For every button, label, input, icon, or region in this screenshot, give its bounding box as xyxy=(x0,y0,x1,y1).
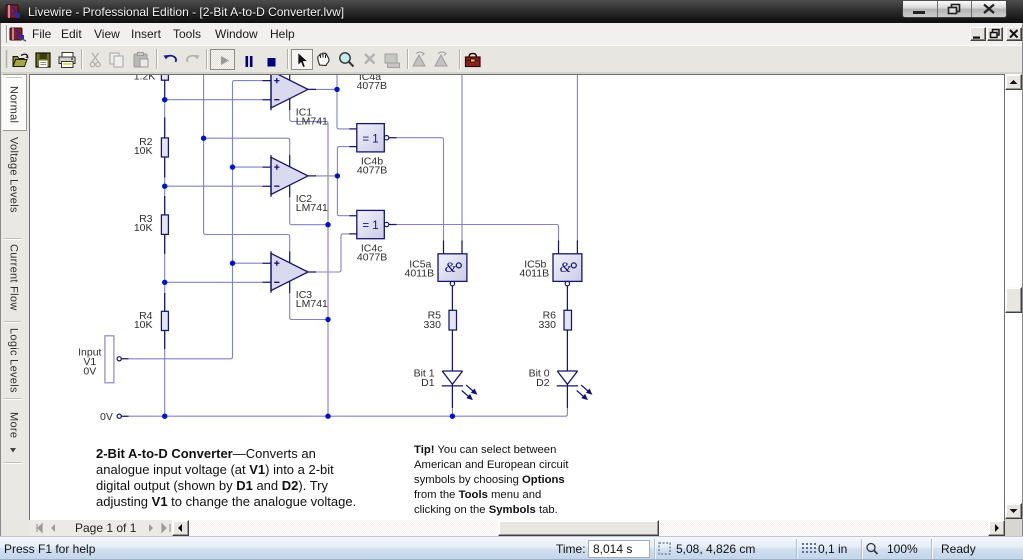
svg-text:D2: D2 xyxy=(536,377,550,389)
svg-text:&: & xyxy=(559,260,571,276)
svg-text:1.2K: 1.2K xyxy=(134,75,156,83)
svg-text:= 1: = 1 xyxy=(362,133,378,145)
svg-text:= 1: = 1 xyxy=(362,220,378,232)
svg-text:D1: D1 xyxy=(421,377,435,389)
svg-text:LM741: LM741 xyxy=(296,116,328,128)
svg-text:4077B: 4077B xyxy=(357,80,387,92)
svg-text:4077B: 4077B xyxy=(357,252,387,264)
svg-text:10K: 10K xyxy=(134,319,153,331)
svg-text:LM741: LM741 xyxy=(296,298,328,310)
svg-text:10K: 10K xyxy=(134,222,153,234)
svg-text:0V: 0V xyxy=(83,366,96,378)
svg-text:10K: 10K xyxy=(134,145,153,157)
svg-text:4077B: 4077B xyxy=(357,165,387,177)
svg-text:0V: 0V xyxy=(100,411,113,423)
svg-text:330: 330 xyxy=(423,319,441,331)
svg-text:Page 1 of 1: Page 1 of 1 xyxy=(75,521,137,535)
svg-text:330: 330 xyxy=(538,319,556,331)
svg-text:LM741: LM741 xyxy=(296,202,328,214)
svg-text:4011B: 4011B xyxy=(405,268,435,280)
svg-text:&: & xyxy=(444,260,456,276)
svg-text:4011B: 4011B xyxy=(520,268,550,280)
